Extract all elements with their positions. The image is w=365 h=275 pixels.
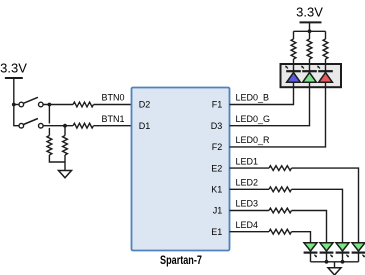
wire: BTN1 pull-down to ground node xyxy=(64,155,66,171)
svg-text:LED4: LED4 xyxy=(236,220,259,230)
LED3 (green) xyxy=(320,243,334,262)
wire: LED1 resistor to LED column xyxy=(292,168,359,243)
wire: rail to blue pull-up xyxy=(293,31,295,39)
wire: pin E2 to LED1 resistor xyxy=(230,167,270,169)
resistor: BTN1 series xyxy=(73,123,94,128)
LED blue (in RGB module) xyxy=(285,65,301,87)
svg-text:3.3V: 3.3V xyxy=(0,61,27,76)
svg-text:BTN1: BTN1 xyxy=(101,114,124,124)
pushbutton switch BTN0 xyxy=(13,97,43,106)
wire: left 3.3V rail down to switches xyxy=(13,78,15,126)
wire: LED2 resistor to LED column xyxy=(292,189,343,243)
wire: rail to green pull-up xyxy=(309,31,311,39)
wire: BTN1 switch to series resistor xyxy=(43,125,73,127)
wire: BTN1 pull-down drop xyxy=(64,126,66,136)
wire: pin F1 to blue LED (LED0_B) xyxy=(230,87,294,105)
wire: RGB pull-up rail xyxy=(294,30,326,32)
wire: BTN0 pull-down drop (hops over BTN1 wire) xyxy=(48,105,50,136)
wire: LED common cathode bus xyxy=(311,261,359,263)
svg-text:F2: F2 xyxy=(212,142,223,152)
svg-text:LED0_R: LED0_R xyxy=(236,135,271,145)
svg-text:D2: D2 xyxy=(139,100,151,110)
pushbutton switch BTN1 xyxy=(13,119,43,128)
resistor: blue LED pull-up xyxy=(291,39,296,59)
LED4 (green) xyxy=(304,243,318,262)
svg-text:E2: E2 xyxy=(211,163,222,173)
svg-text:K1: K1 xyxy=(211,185,222,195)
svg-text:E1: E1 xyxy=(211,227,222,237)
svg-text:D1: D1 xyxy=(139,121,151,131)
junction: rail center xyxy=(308,29,312,33)
wire: pin K1 to LED2 resistor xyxy=(230,188,270,190)
svg-text:F1: F1 xyxy=(212,100,223,110)
resistor: green LED pull-up xyxy=(307,39,312,59)
LED green (in RGB module) xyxy=(301,65,317,87)
wire: BTN1 resistor to pin D1 xyxy=(94,125,132,127)
resistor: BTN1 pull-down xyxy=(63,136,68,156)
wire: LED4 resistor to LED column xyxy=(292,232,311,244)
svg-text:BTN0: BTN0 xyxy=(101,93,124,103)
resistor: LED3 series xyxy=(269,208,292,213)
RGB LED module box xyxy=(281,64,342,87)
wire: rail to red pull-up xyxy=(325,31,327,39)
LED red (in RGB module) xyxy=(317,65,333,87)
svg-text:D3: D3 xyxy=(211,121,223,131)
wire: pin D3 to green LED (LED0_G) xyxy=(230,87,310,126)
power supply 3.3V (left) xyxy=(0,61,27,79)
svg-text:J1: J1 xyxy=(213,206,223,216)
svg-text:Spartan-7: Spartan-7 xyxy=(160,255,202,267)
resistor: LED1 series xyxy=(269,166,292,171)
power supply 3.3V (top) xyxy=(296,4,323,22)
wire: BTN0 resistor to pin D2 xyxy=(94,104,132,106)
junction: rail to BTN0 switch xyxy=(12,103,16,107)
ground (right) xyxy=(328,268,341,275)
wire: bus to ground stub xyxy=(334,262,336,268)
resistor: LED4 series xyxy=(269,229,292,234)
junction: LED3 cathode on bus xyxy=(325,260,329,264)
junction: LED2 cathode on bus xyxy=(341,260,345,264)
wire: pull-down commoning to ground xyxy=(49,155,65,162)
resistor: red LED pull-up xyxy=(323,39,328,59)
FPGA U1 Spartan-7 body xyxy=(132,88,230,251)
resistor: BTN0 series xyxy=(73,102,94,107)
wire: pin F2 to red LED (LED0_R) xyxy=(230,87,326,147)
svg-text:LED2: LED2 xyxy=(236,178,259,188)
wire: pin J1 to LED3 resistor xyxy=(230,210,270,212)
junction: BTN0 pull-down tap xyxy=(48,103,52,107)
ground (left) xyxy=(59,171,72,178)
LED1 (green) xyxy=(352,243,365,262)
wire: pin E1 to LED4 resistor xyxy=(230,231,270,233)
svg-text:3.3V: 3.3V xyxy=(296,4,323,19)
wire: pull-ups into RGB module xyxy=(294,59,326,65)
resistor: LED2 series xyxy=(269,187,292,192)
LED2 (green) xyxy=(336,243,350,262)
svg-text:LED3: LED3 xyxy=(236,199,259,209)
wire: LED3 resistor to LED column xyxy=(292,211,327,244)
junction: BTN1 pull-down tap xyxy=(63,124,67,128)
svg-text:LED0_B: LED0_B xyxy=(236,93,270,103)
svg-text:LED0_G: LED0_G xyxy=(236,114,271,124)
wire: BTN0 switch to series resistor xyxy=(43,104,73,106)
wire: top 3.3V stub xyxy=(309,23,311,32)
resistor: BTN0 pull-down xyxy=(47,136,52,156)
svg-text:LED1: LED1 xyxy=(236,156,259,166)
